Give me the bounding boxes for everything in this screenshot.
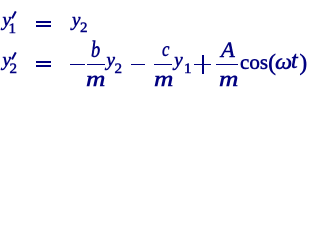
prime of y2' bbox=[11, 52, 17, 60]
omega bbox=[275, 61, 292, 63]
variable t bbox=[291, 60, 298, 62]
subscript 1 of y1 term bbox=[184, 68, 192, 70]
left parenthesis bbox=[268, 62, 276, 64]
subscript 1 of y1 bbox=[9, 28, 17, 30]
numerator b bbox=[91, 49, 100, 51]
variable y of y2' bbox=[3, 60, 11, 62]
minus sign before c/m bbox=[131, 64, 144, 66]
equals sign line2 bottom bar bbox=[36, 65, 51, 67]
right parenthesis bbox=[300, 62, 308, 64]
minus sign before b/m bbox=[70, 64, 84, 66]
fraction bar b/m bbox=[87, 64, 105, 66]
variable y of y1 term bbox=[174, 60, 182, 62]
variable y of y2 term bbox=[107, 60, 115, 62]
subscript 2 of y2 line1 bbox=[80, 27, 88, 29]
variable y of y1' bbox=[3, 20, 11, 22]
numerator c bbox=[162, 48, 169, 50]
variable y of y2 line1 bbox=[72, 20, 80, 22]
equals sign line1 bottom bar bbox=[36, 25, 51, 27]
equation system: y1' = y2 ; y2' = -(b/m)y2 - (c/m)y1 + (A/m)cos(omega t) bbox=[0, 0, 307, 87]
equals sign line1 top bar bbox=[36, 21, 51, 23]
subscript 2 of y2' bbox=[10, 68, 18, 70]
fraction bar A/m bbox=[216, 64, 238, 66]
denominator m of b/m bbox=[86, 78, 105, 80]
equals sign line2 top bar bbox=[36, 61, 51, 63]
denominator m of A/m bbox=[219, 78, 238, 80]
prime of y1' bbox=[11, 11, 17, 19]
numerator A bbox=[221, 49, 235, 51]
subscript 2 of y2 term bbox=[115, 68, 123, 70]
denominator m of c/m bbox=[154, 78, 173, 80]
plus sign horizontal bar bbox=[194, 64, 211, 66]
fraction bar c/m bbox=[154, 64, 172, 66]
function name cos bbox=[240, 61, 268, 63]
plus sign vertical bar bbox=[202, 55, 204, 74]
